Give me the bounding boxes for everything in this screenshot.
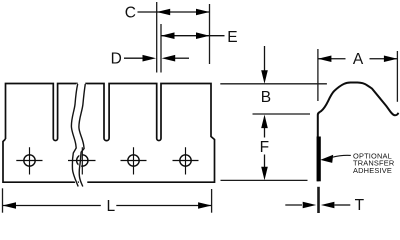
extension line top-of-part xyxy=(220,83,327,85)
svg-text:F: F xyxy=(260,139,269,156)
hole H2 circle (behind break lines) xyxy=(77,155,88,166)
dimension A line xyxy=(318,58,398,60)
dimension E arrows xyxy=(161,32,175,39)
extension line L left xyxy=(2,188,4,212)
adhesive thick bar xyxy=(317,137,321,182)
extension line A left xyxy=(317,49,319,101)
svg-text:C: C xyxy=(125,4,136,21)
dimension C line xyxy=(138,11,210,13)
extension line slot3 left xyxy=(156,2,158,73)
dimension L arrows xyxy=(3,202,17,209)
dimension F arrows xyxy=(264,126,266,169)
extension line L right xyxy=(211,189,213,213)
dimension C arrows xyxy=(157,9,171,16)
dimension A arrows xyxy=(318,55,332,62)
dimension D right arrow xyxy=(174,57,189,59)
break line right (white halo) xyxy=(79,84,85,187)
extension line shoulder xyxy=(253,113,311,115)
extension line bottom (F) xyxy=(221,179,308,181)
svg-text:L: L xyxy=(106,198,115,215)
svg-text:D: D xyxy=(111,51,122,68)
extension line A right xyxy=(396,51,398,102)
dimension T right arrow xyxy=(335,204,351,206)
extension line T xyxy=(317,187,320,213)
dimension E line xyxy=(161,35,225,37)
svg-text:ADHESIVE: ADHESIVE xyxy=(353,166,392,175)
dimension B top arrow xyxy=(264,46,266,71)
break line right xyxy=(79,84,85,187)
adhesive leader arrow xyxy=(320,155,333,163)
hole H1 xyxy=(16,147,42,174)
svg-text:E: E xyxy=(227,29,237,46)
extension line slot3 right xyxy=(160,24,162,73)
side profile curve xyxy=(318,83,399,182)
break line left (white halo) xyxy=(71,84,78,187)
extension line right edge (C/E) xyxy=(209,4,211,64)
dimension T left arrow xyxy=(285,204,302,206)
hole H2 crosshair xyxy=(68,147,96,174)
part outline (front view) xyxy=(3,84,215,183)
svg-text:T: T xyxy=(355,197,365,214)
dimension L line xyxy=(3,205,212,207)
break line left xyxy=(71,84,78,187)
hole H4 xyxy=(173,147,199,174)
hole H3 xyxy=(121,147,147,174)
svg-text:A: A xyxy=(353,51,364,68)
svg-text:B: B xyxy=(261,89,271,106)
dimension D left arrow xyxy=(124,57,144,59)
